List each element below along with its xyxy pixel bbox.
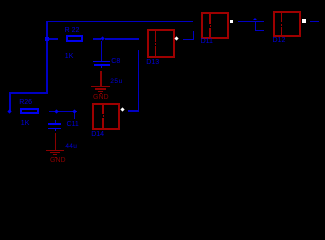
pin marker square D12 [302,19,306,23]
ground GND1 under C8 [100,71,102,86]
label R26 [19,100,32,106]
node junction right of R22 [100,36,105,41]
pin marker diamond D13 [174,37,178,41]
value 1K of R22 [65,54,74,60]
wire top rail [46,21,193,23]
wire mid vertical [138,50,140,112]
capacitor C11 [48,123,61,125]
label D14 [91,132,104,138]
wire stub below right dot [74,113,76,120]
label D13 [146,60,159,66]
resistor R22 [66,35,84,42]
node junction above C11 [54,109,58,113]
IC box D11 [201,12,229,39]
value 44u of C11 [65,144,77,150]
ground GND2 under C11 [55,133,57,150]
wire lower-left horizontal [9,92,48,94]
node junction dot at bottom wire right end [72,109,76,113]
wire far-left vertical [9,92,11,112]
capacitor C8 [93,61,110,63]
wire D14 right pin to vertical [128,110,139,112]
label C8 [111,59,120,65]
label R22 [65,28,80,34]
bottom-left wire rail [49,111,77,113]
node junction on left bus at R22 tap [45,37,49,41]
pin marker square D11 [230,20,234,24]
wire D11 right pin [238,21,264,23]
IC box D13 [147,29,175,58]
wire junction to D13 left pin [105,38,139,40]
wire stub to R22 left pin [48,38,58,40]
node junction at left vertical end [8,110,12,114]
wire to D12 lower-left pin [255,30,265,32]
wire left vertical bus [46,21,48,94]
label C11 [67,122,79,128]
pin marker diamond D14 [120,107,124,111]
label D11 [201,39,213,45]
wire D13 right pin [183,39,195,41]
wire R22 right pin [93,38,101,40]
wire drop between D11 and D12 [255,21,257,31]
junction arrow between D11 and D12 [253,18,257,20]
IC box D12 [273,11,301,38]
wire C11 stem [55,120,57,124]
wire D12 right pin [310,21,319,23]
wire C8 stem [101,41,103,61]
IC box D14 [92,103,121,130]
resistor R26 [20,108,39,114]
value 25u of C8 [110,79,123,85]
wire up to D11 lower-left pin [193,31,195,39]
label D12 [273,38,286,44]
value 1K of R26 [21,121,30,127]
